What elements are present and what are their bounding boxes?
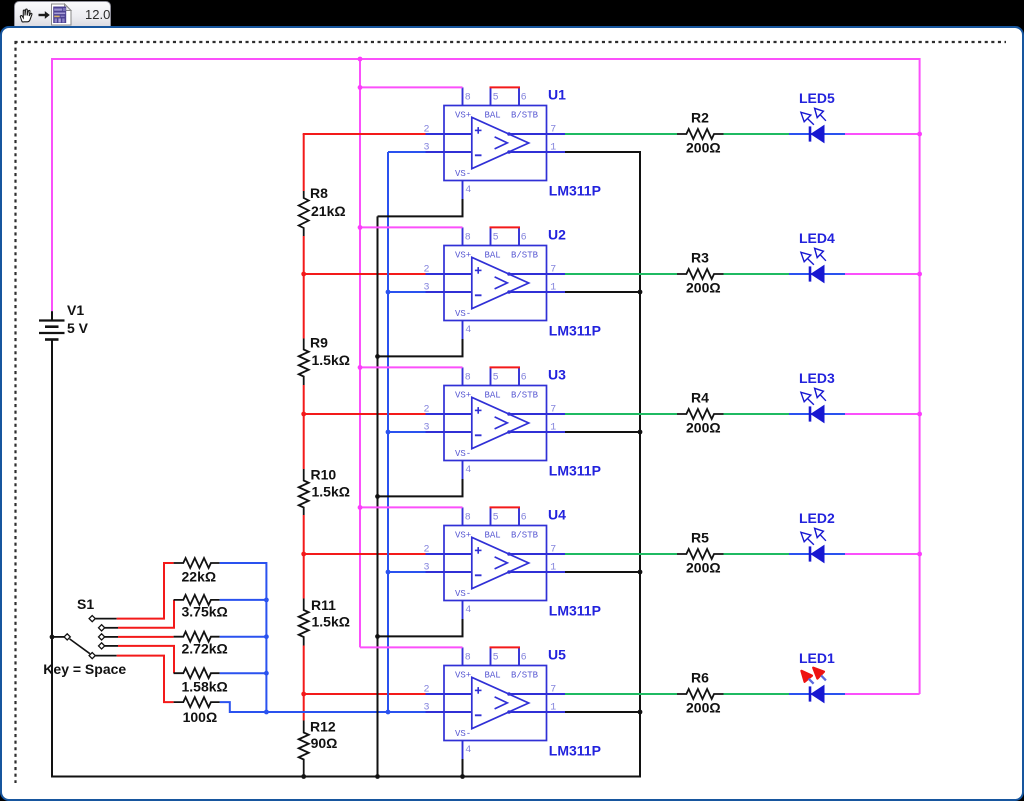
svg-text:3.75kΩ: 3.75kΩ bbox=[182, 603, 228, 619]
svg-text:LED4: LED4 bbox=[799, 230, 835, 246]
svg-text:R9: R9 bbox=[310, 334, 328, 350]
svg-text:LM311P: LM311P bbox=[549, 322, 601, 338]
svg-text:LM311P: LM311P bbox=[549, 742, 601, 758]
svg-text:U2: U2 bbox=[548, 226, 566, 242]
svg-text:R12: R12 bbox=[310, 718, 336, 734]
svg-text:U1: U1 bbox=[548, 86, 566, 102]
svg-text:S1: S1 bbox=[77, 596, 94, 612]
svg-text:Key = Space: Key = Space bbox=[43, 661, 126, 677]
svg-text:LED1: LED1 bbox=[799, 650, 835, 666]
svg-text:R10: R10 bbox=[311, 467, 337, 483]
svg-text:V1: V1 bbox=[67, 302, 84, 318]
svg-text:VS+: VS+ bbox=[455, 111, 471, 121]
svg-text:LM311P: LM311P bbox=[549, 462, 601, 478]
svg-text:5: 5 bbox=[493, 93, 499, 104]
svg-text:1: 1 bbox=[550, 143, 556, 154]
svg-text:1.5kΩ: 1.5kΩ bbox=[312, 614, 350, 630]
svg-text:1.58kΩ: 1.58kΩ bbox=[182, 679, 228, 695]
svg-text:VS-: VS- bbox=[455, 169, 471, 179]
svg-text:6: 6 bbox=[521, 93, 527, 104]
svg-text:R3: R3 bbox=[691, 250, 709, 266]
svg-text:2.72kΩ: 2.72kΩ bbox=[182, 641, 228, 657]
svg-text:U5: U5 bbox=[548, 646, 566, 662]
svg-text:U3: U3 bbox=[548, 366, 566, 382]
svg-text:1.5kΩ: 1.5kΩ bbox=[312, 484, 350, 500]
svg-text:R5: R5 bbox=[691, 530, 709, 546]
svg-text:LM311P: LM311P bbox=[549, 182, 601, 198]
svg-text:2: 2 bbox=[424, 124, 430, 135]
svg-text:21kΩ: 21kΩ bbox=[311, 203, 346, 219]
svg-text:R4: R4 bbox=[691, 390, 709, 406]
svg-text:1.5kΩ: 1.5kΩ bbox=[312, 352, 350, 368]
svg-text:8: 8 bbox=[465, 93, 471, 104]
svg-text:R6: R6 bbox=[691, 670, 709, 686]
svg-text:R2: R2 bbox=[691, 110, 709, 126]
svg-text:22kΩ: 22kΩ bbox=[182, 569, 217, 585]
svg-text:4: 4 bbox=[465, 185, 471, 196]
svg-text:90Ω: 90Ω bbox=[311, 735, 338, 751]
svg-text:3: 3 bbox=[424, 143, 430, 154]
svg-text:R11: R11 bbox=[311, 597, 336, 613]
svg-text:LED2: LED2 bbox=[799, 510, 835, 526]
svg-text:LM311P: LM311P bbox=[549, 602, 601, 618]
svg-text:100Ω: 100Ω bbox=[183, 709, 218, 725]
svg-text:5 V: 5 V bbox=[67, 320, 89, 336]
svg-text:LED5: LED5 bbox=[799, 90, 835, 106]
svg-text:U4: U4 bbox=[548, 506, 566, 522]
svg-text:R8: R8 bbox=[310, 185, 328, 201]
svg-text:LED3: LED3 bbox=[799, 370, 835, 386]
svg-text:7: 7 bbox=[550, 124, 556, 135]
svg-text:B/STB: B/STB bbox=[511, 111, 539, 121]
svg-text:200Ω: 200Ω bbox=[686, 140, 721, 156]
svg-text:BAL: BAL bbox=[485, 111, 501, 121]
